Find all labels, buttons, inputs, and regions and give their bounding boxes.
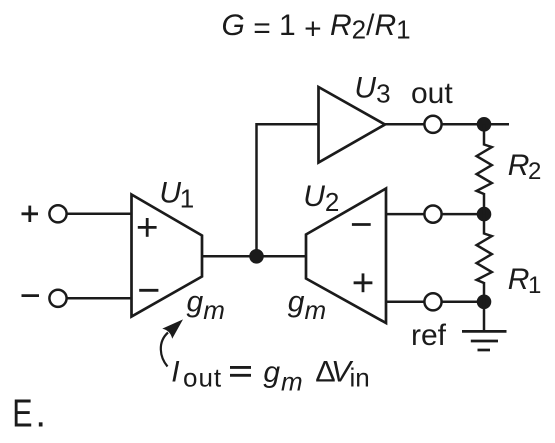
- junction dot R1/R2: [477, 207, 492, 222]
- resistor R1: [477, 234, 492, 284]
- label - (left input): [22, 294, 40, 297]
- svg-text:m: m: [281, 367, 303, 397]
- svg-text:out: out: [411, 77, 453, 110]
- junction dot ref: [477, 295, 492, 310]
- wire: out terminal to R divider and stub: [442, 123, 509, 126]
- svg-text:E: E: [12, 392, 32, 435]
- terminal circle U2 -: [424, 206, 441, 223]
- terminal circle + input: [49, 205, 66, 222]
- svg-text:out: out: [183, 362, 222, 392]
- curved arrow to gm: [161, 333, 168, 367]
- buffer U3 body: [319, 87, 386, 163]
- terminal circle out: [424, 116, 441, 133]
- svg-text:.: .: [35, 393, 46, 436]
- wire: out node down to R2: [483, 124, 486, 145]
- wire: node to R1: [483, 214, 486, 234]
- wire: U2 + input to ref: [386, 301, 424, 304]
- svg-text:g: g: [263, 356, 280, 389]
- wire: circle to R1/R2 node: [442, 213, 484, 216]
- svg-text:I: I: [171, 355, 179, 388]
- label + (left input): [22, 206, 39, 222]
- ground: [462, 331, 507, 350]
- U1 + input mark: [138, 218, 157, 237]
- wire: - input to U1: [67, 297, 132, 300]
- wire: R1 to ground: [483, 282, 486, 331]
- wire: U1 output to U2 output node: [202, 255, 306, 258]
- op-amp U1 body: [132, 195, 203, 317]
- wire: circle to R1 bottom node: [442, 301, 484, 304]
- wire: + input to U1: [67, 213, 132, 216]
- wire: U2 - input to divider: [386, 213, 424, 216]
- U2 - input mark: [352, 223, 371, 226]
- svg-text:G = 1 + R2/R1: G = 1 + R2/R1: [222, 9, 411, 46]
- svg-text:in: in: [350, 362, 370, 392]
- terminal circle ref: [424, 293, 441, 310]
- op-amp U2 body (mirrored): [306, 189, 386, 324]
- terminal circle - input: [49, 290, 66, 307]
- wire: U3 output to out terminal: [385, 123, 424, 126]
- junction dot at out: [477, 117, 492, 132]
- wire: node up to U3 input: [257, 124, 319, 256]
- svg-text:ref: ref: [411, 319, 447, 352]
- resistor R2: [477, 145, 492, 195]
- wire: R2 to node: [483, 193, 486, 214]
- junction node dot: [249, 249, 264, 264]
- U2 + input mark: [354, 273, 373, 292]
- U1 - input mark: [139, 289, 158, 292]
